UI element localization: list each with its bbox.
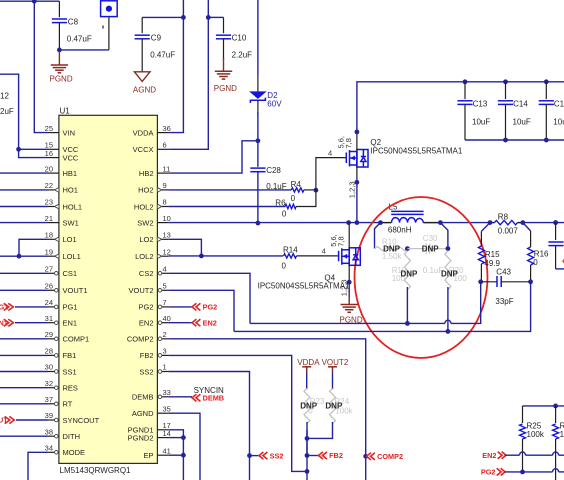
svg-text:10uF: 10uF — [553, 117, 564, 126]
svg-text:2: 2 — [163, 330, 167, 339]
svg-text:29: 29 — [45, 330, 53, 339]
svg-text:12: 12 — [163, 247, 171, 256]
svg-text:C13: C13 — [473, 99, 488, 108]
Q4 source lead — [348, 263, 350, 282]
wire LOL2 to R14 — [169, 255, 284, 257]
capacitor C15 10uF — [544, 79, 549, 84]
svg-text:AGND: AGND — [132, 409, 154, 418]
Q4 drain lead — [348, 223, 350, 250]
svg-text:DNP: DNP — [401, 269, 419, 278]
wire VOUT2 to line B — [169, 290, 234, 331]
U1 pin 36 VDDA — [157, 132, 168, 134]
svg-text:FB1: FB1 — [63, 351, 77, 360]
svg-text:C8: C8 — [68, 18, 79, 27]
ground AGND under C9 — [134, 72, 150, 82]
R26 bottom lead — [555, 439, 557, 480]
svg-text:C30: C30 — [423, 234, 438, 243]
junction SW rail / output cap branch — [553, 220, 558, 225]
wire EP stub — [169, 454, 184, 456]
svg-text:EN1: EN1 — [63, 319, 78, 328]
svg-text:8: 8 — [163, 198, 167, 207]
svg-text:RES: RES — [63, 384, 78, 393]
svg-text:LO2: LO2 — [139, 235, 153, 244]
U1 pin 8 HOL2 — [157, 206, 168, 208]
inductor L5 core lines — [391, 210, 423, 212]
wire CS2 line left segment — [250, 322, 445, 324]
L5 left lead — [381, 222, 392, 224]
wire R20 bottom to VOUT2 line — [447, 287, 449, 331]
svg-text:C43: C43 — [496, 267, 511, 276]
junction R16 / C43 right — [528, 279, 533, 284]
wire gate riser to Q2 gate — [316, 158, 346, 191]
svg-text:33: 33 — [163, 388, 171, 397]
svg-text:38: 38 — [45, 427, 53, 436]
junction VCCX / C10 — [206, 15, 211, 20]
wire COMP1 to left edge — [0, 338, 48, 340]
svg-text:LM5143QRWGRQ1: LM5143QRWGRQ1 — [60, 466, 132, 475]
svg-text:HO2: HO2 — [138, 186, 153, 195]
wire PG2 line with hop — [505, 471, 523, 473]
svg-text:VCC: VCC — [63, 153, 79, 162]
wire HOL1 to left edge — [0, 206, 48, 208]
port PG2 — [192, 303, 200, 310]
svg-text:EN2: EN2 — [139, 319, 154, 328]
junction R25 / PG2 line — [520, 470, 525, 475]
wire VDDA rail (R25/R26) — [523, 405, 564, 407]
svg-text:13: 13 — [163, 231, 171, 240]
svg-text:10: 10 — [163, 214, 171, 223]
U1 pin 13 LO2 — [157, 238, 168, 240]
svg-text:PG2: PG2 — [203, 303, 218, 312]
junction C14 bottom — [503, 138, 508, 143]
svg-text:CS2: CS2 — [139, 269, 154, 278]
svg-text:34: 34 — [45, 444, 53, 453]
U1 pin 25 VIN — [48, 132, 59, 134]
svg-text:UT: UT — [0, 416, 8, 425]
capacitor C12 corner wire (partial at edge) — [0, 74, 48, 149]
wire CS1 to left edge — [0, 272, 48, 274]
junction HB2 / D2 wire — [256, 138, 261, 143]
U1 pin 39 SYNCOUT — [48, 419, 59, 421]
svg-text:2uF: 2uF — [0, 107, 14, 116]
svg-text:0: 0 — [282, 210, 287, 219]
U1 pin 28 FB1 — [48, 354, 59, 356]
U1 pin 38 DITH — [48, 435, 59, 437]
svg-text:EP: EP — [143, 451, 153, 460]
svg-text:4: 4 — [163, 265, 167, 274]
ground PGND under Q4 — [348, 297, 350, 305]
svg-text:C10: C10 — [232, 34, 247, 43]
svg-text:30: 30 — [45, 363, 53, 372]
port FB2 — [319, 452, 327, 459]
junction VCC pins tie — [16, 147, 21, 152]
svg-text:0: 0 — [533, 258, 538, 267]
wire DITH to left edge — [0, 435, 48, 437]
resistor R15 49.9 — [478, 246, 484, 264]
ground PGND under C8 — [58, 52, 60, 66]
capacitor C9 top wire — [142, 16, 183, 18]
resistor R14 — [284, 254, 297, 258]
svg-text:6: 6 — [163, 141, 167, 150]
svg-text:PG2: PG2 — [138, 303, 153, 312]
svg-text:U1: U1 — [60, 107, 71, 116]
wire C13-C15 bottom rail — [465, 139, 564, 141]
svg-text:VDDA: VDDA — [297, 358, 320, 367]
C28 bottom lead — [257, 172, 259, 223]
wire D2 to C28/SW node — [257, 112, 259, 167]
svg-text:C9: C9 — [151, 34, 162, 43]
wire RES to left edge — [0, 387, 48, 389]
wire HB2 to D2 riser — [169, 141, 258, 173]
junction Q2 drain — [355, 130, 360, 135]
capacitor C10 top wire — [208, 16, 223, 18]
port SS2 — [259, 452, 267, 459]
U1 pin 1 SS2 — [157, 371, 168, 373]
junction SW rail / C28 — [256, 221, 261, 226]
svg-text:COMP2: COMP2 — [377, 452, 403, 461]
svg-text:R15: R15 — [485, 250, 500, 259]
transistor Q2 IPC50N04S5L5R5ATMA1 — [345, 153, 347, 164]
wire COMP2 below port — [365, 456, 367, 480]
wire VDDA to R23 — [306, 372, 308, 389]
Q2 drain lead — [356, 132, 358, 152]
svg-text:26: 26 — [45, 282, 53, 291]
svg-text:24: 24 — [45, 298, 53, 307]
svg-text:IPC50N04S5L5R5ATMA1: IPC50N04S5L5R5ATMA1 — [258, 281, 350, 290]
Q2 source lead — [356, 165, 358, 182]
wire HOL2 to R6 — [169, 206, 286, 208]
resistor R4 — [291, 188, 304, 192]
svg-text:0.47uF: 0.47uF — [67, 35, 92, 44]
junction C8 / PGND / testpoint wire — [57, 48, 62, 53]
wire Q4 source to PGND — [348, 282, 350, 298]
svg-text:LO1: LO1 — [63, 235, 77, 244]
svg-text:COMP1: COMP1 — [63, 335, 90, 344]
U1 pin 10 SW2 — [157, 222, 168, 224]
junction Q4 source — [347, 280, 352, 285]
svg-text:31: 31 — [45, 314, 53, 323]
junction C30 / R20 — [446, 246, 451, 251]
svg-text:HB1: HB1 — [63, 169, 78, 178]
svg-text:CS1: CS1 — [63, 269, 78, 278]
svg-text:VOUT2: VOUT2 — [128, 286, 153, 295]
svg-text:10uF: 10uF — [513, 117, 531, 126]
junction R4 / R6 gate tie — [314, 188, 319, 193]
svg-text:HB2: HB2 — [139, 169, 154, 178]
junction R26 top — [553, 404, 558, 409]
U1 pin 24 PG1 — [48, 306, 59, 308]
U1 pin 34 MODE — [48, 451, 59, 453]
wire FB1 to left edge — [0, 354, 48, 356]
svg-text:PGND: PGND — [340, 315, 363, 324]
R14 to Q4 gate lead — [297, 255, 338, 257]
svg-text:21: 21 — [45, 214, 53, 223]
svg-text:MODE: MODE — [63, 448, 86, 457]
U1 pin 29 COMP1 — [48, 338, 59, 340]
junction R19 / CS2 line — [405, 321, 410, 326]
wire HO1 to left edge — [0, 189, 48, 191]
wire SS1 to left edge — [0, 371, 48, 373]
wire PGND1/PGND2/EP bus — [169, 430, 184, 480]
svg-text:19: 19 — [45, 247, 53, 256]
svg-text:9: 9 — [163, 181, 167, 190]
wire LO2 to LOL2 tie — [169, 239, 202, 256]
svg-text:PGND: PGND — [50, 75, 73, 84]
wire SS2 riser — [169, 372, 250, 480]
resistor R23 DNP — [304, 389, 310, 424]
wire SW2 rail — [169, 222, 392, 224]
svg-text:22: 22 — [45, 181, 53, 190]
inductor L5 680nH — [392, 218, 424, 223]
svg-text:0.47uF: 0.47uF — [150, 51, 175, 60]
U1 pin 19 LOL1 — [48, 255, 59, 257]
svg-text:PGND2: PGND2 — [128, 433, 154, 442]
svg-text:EN2: EN2 — [203, 318, 217, 327]
svg-text:36: 36 — [163, 124, 171, 133]
wire R24 bottom to join — [307, 422, 333, 438]
wire MODE down to bottom edge — [28, 452, 48, 480]
wire CS2 to line A — [169, 273, 250, 323]
resistor R26 100k — [553, 424, 559, 439]
junction Q4 drain on SW rail — [346, 220, 351, 225]
svg-text:DNP: DNP — [300, 402, 318, 411]
svg-text:DEMB: DEMB — [203, 394, 225, 403]
U1 pin 23 HOL1 — [48, 206, 59, 208]
wire PG2 pin to port — [169, 306, 192, 308]
junction L5 right / DNP branch — [438, 220, 443, 225]
svg-text:LOL1: LOL1 — [63, 252, 81, 261]
svg-text:SW2: SW2 — [137, 218, 153, 227]
U1 pin 21 SW1 — [48, 222, 59, 224]
resistor R20 DNP — [445, 251, 451, 290]
svg-text:27: 27 — [45, 265, 53, 274]
junction R20 / VOUT2 line — [446, 329, 451, 334]
junction SS2 port — [247, 453, 252, 458]
U1 pin 2 COMP2 — [157, 338, 168, 340]
C9 bottom lead — [141, 39, 143, 72]
D2 cathode lead — [257, 100, 259, 116]
U1 pin 35 AGND — [157, 412, 168, 414]
wire Q2 source to SW rail — [356, 182, 358, 222]
capacitor C10 — [216, 34, 231, 36]
svg-text:R4: R4 — [291, 180, 302, 189]
svg-text:28: 28 — [45, 347, 53, 356]
capacitor C13 10uF — [463, 79, 468, 84]
resistor R8 0.007 — [490, 222, 495, 224]
wire HB1 to left edge — [0, 172, 48, 174]
svg-text:680nH: 680nH — [388, 226, 412, 235]
wire LO1 to LOL1 tie — [19, 239, 48, 256]
U1 pin 6 VCCX — [157, 148, 168, 150]
resistor R10 DNP — [375, 246, 408, 250]
junction SW rail / R16 branch — [520, 220, 525, 225]
svg-text:33pF: 33pF — [495, 297, 513, 306]
svg-text:EN2: EN2 — [482, 451, 496, 460]
junction PGND2 — [181, 435, 186, 440]
wire RT to left edge — [0, 403, 48, 405]
svg-text:20: 20 — [45, 164, 53, 173]
svg-text:35: 35 — [163, 404, 171, 413]
svg-text:0: 0 — [291, 194, 296, 203]
CS2 line hop over R20 branch — [445, 320, 451, 323]
svg-text:18: 18 — [45, 231, 53, 240]
svg-text:16: 16 — [45, 149, 53, 158]
svg-text:41: 41 — [163, 446, 171, 455]
wire R15 top — [481, 223, 490, 232]
svg-text:C28: C28 — [266, 166, 281, 175]
svg-text:VCCX: VCCX — [133, 145, 154, 154]
capacitor C9 — [135, 34, 150, 36]
port DEMB — [192, 394, 200, 401]
svg-text:R6: R6 — [275, 198, 286, 207]
U1 pin 12 LOL2 — [157, 255, 168, 257]
testpoint connector box — [101, 1, 118, 17]
junction SW rail / R15 branch — [488, 220, 493, 225]
C9 top lead — [141, 17, 143, 33]
svg-text:1,2,3: 1,2,3 — [347, 182, 356, 199]
wire DEMB pin to port — [169, 396, 192, 398]
U1 pin 17 PGND1 — [157, 429, 168, 431]
R4 right lead to gate node — [304, 189, 316, 191]
svg-text:7,8: 7,8 — [337, 236, 346, 246]
svg-text:23: 23 — [45, 198, 53, 207]
wire EN2 pin to port — [169, 322, 192, 324]
port EN2 — [192, 319, 200, 326]
U1 pin 32 RES — [48, 387, 59, 389]
junction VDDA / C9 — [181, 15, 186, 20]
junction COMP2 port — [363, 454, 368, 459]
svg-text:VIN: VIN — [63, 128, 76, 137]
wire SS2 port stub — [250, 455, 260, 457]
U1 pin 22 HO1 — [48, 189, 59, 191]
junction L5 left / DNP branch — [378, 220, 383, 225]
diode D2 (zener, 60V) — [249, 91, 267, 99]
svg-text:7,8: 7,8 — [344, 138, 353, 148]
resistor R19 DNP — [404, 251, 410, 290]
svg-text:PG2: PG2 — [481, 468, 496, 477]
svg-text:PGND: PGND — [214, 84, 237, 93]
wire R15 bottom to C43 — [480, 264, 482, 282]
svg-text:C14: C14 — [513, 99, 528, 108]
wire FB2 port stub — [307, 455, 319, 457]
wire HO2 to R4 — [169, 189, 292, 191]
capacitor C28 — [250, 167, 265, 169]
svg-text:R14: R14 — [283, 245, 298, 254]
testpoint pin number 1 tick — [102, 26, 104, 29]
junction EP — [181, 453, 186, 458]
resistor R6 — [285, 204, 296, 208]
svg-text:HOL2: HOL2 — [134, 202, 154, 211]
highlight ellipse (red markup circle) — [355, 197, 488, 358]
svg-text:HOL1: HOL1 — [63, 202, 83, 211]
svg-text:FB2: FB2 — [140, 351, 154, 360]
wire LOL1 to left edge — [0, 255, 48, 257]
wire Q2 drain to VIN-power rail — [357, 82, 564, 132]
C43 right lead — [501, 281, 530, 283]
svg-text:100k: 100k — [560, 430, 564, 439]
wire R19 bottom to CS2 line — [406, 287, 408, 323]
U1 pin 9 HO2 — [157, 189, 168, 191]
capacitor C16 (right edge) — [553, 220, 558, 225]
R6 right lead to gate riser — [296, 190, 316, 206]
wire SW rail right of R8 — [517, 222, 564, 224]
svg-text:FB2: FB2 — [329, 451, 343, 460]
wire SW rail right segment — [423, 222, 494, 224]
L5 right lead — [423, 222, 440, 224]
svg-text:2.2uF: 2.2uF — [232, 51, 253, 60]
svg-text:7: 7 — [163, 298, 167, 307]
U1 pin 4 CS2 — [157, 272, 168, 274]
svg-text:11: 11 — [163, 164, 171, 173]
svg-text:RT: RT — [63, 400, 73, 409]
svg-text:AGND: AGND — [133, 86, 156, 95]
svg-text:DNP: DNP — [422, 245, 440, 254]
wire VDDA riser — [169, 0, 184, 133]
wire VOUT2 to R24 — [332, 372, 334, 389]
svg-text:IPC50N04S5L5R5ATMA1: IPC50N04S5L5R5ATMA1 — [370, 146, 462, 155]
svg-text:0.007: 0.007 — [498, 227, 519, 236]
R25 top lead — [522, 406, 524, 423]
wire SW1 to left edge — [0, 222, 48, 224]
U1 pin 40 EN2 — [157, 322, 168, 324]
junction Q2 source — [355, 180, 360, 185]
capacitor C30 DNP — [407, 248, 426, 250]
wire VCC pin16 branch — [19, 149, 48, 157]
svg-text:100k: 100k — [527, 430, 545, 439]
wire EN2 line with hops — [505, 454, 520, 456]
svg-text:0: 0 — [282, 262, 287, 271]
wire VIN top rail — [0, 0, 59, 2]
svg-text:3: 3 — [163, 347, 167, 356]
svg-text:12: 12 — [0, 92, 9, 101]
svg-text:32: 32 — [45, 379, 53, 388]
svg-text:VDDA: VDDA — [133, 128, 154, 137]
wire R16 bottom to VOUT2 line — [234, 282, 531, 332]
svg-text:DNP: DNP — [441, 269, 459, 278]
capacitor C8 — [52, 18, 67, 20]
port COMP2 — [367, 453, 375, 460]
resistor R25 100k — [520, 424, 526, 439]
U1 pin 7 PG2 — [157, 306, 168, 308]
junction R10 / C30 / R19 — [405, 246, 410, 251]
svg-text:5: 5 — [163, 282, 167, 291]
ground PGND under C10 — [223, 58, 225, 71]
svg-text:DEMB: DEMB — [132, 393, 154, 402]
svg-text:VOUT2: VOUT2 — [322, 358, 349, 367]
wire FB2 node riser — [306, 430, 308, 480]
capacitor C14 10uF — [503, 79, 508, 84]
junction LO2 / LOL2 — [199, 254, 204, 259]
svg-text:SYNCOUT: SYNCOUT — [63, 416, 100, 425]
svg-text:C15: C15 — [554, 99, 564, 108]
junction Q2 source on SW rail — [355, 220, 360, 225]
svg-text:25: 25 — [45, 124, 53, 133]
wire C43-left down to CS2 line — [451, 282, 481, 324]
resistor R24 DNP — [330, 389, 336, 424]
testpoint lead — [108, 17, 110, 50]
svg-text:4: 4 — [322, 246, 326, 255]
C10 bottom lead — [223, 39, 225, 60]
junction C15 bottom — [544, 138, 549, 143]
wire FB2 to bottom node — [169, 355, 307, 471]
wire R16 top — [523, 223, 531, 231]
svg-text:SS1: SS1 — [63, 367, 77, 376]
IC U1 LM5143QRWGRQ1 body — [59, 115, 157, 463]
capacitor C43 left lead — [481, 281, 497, 283]
svg-text:37: 37 — [45, 395, 53, 404]
U1 pin 31 EN1 — [48, 322, 59, 324]
wire R16 bottom — [530, 265, 532, 282]
